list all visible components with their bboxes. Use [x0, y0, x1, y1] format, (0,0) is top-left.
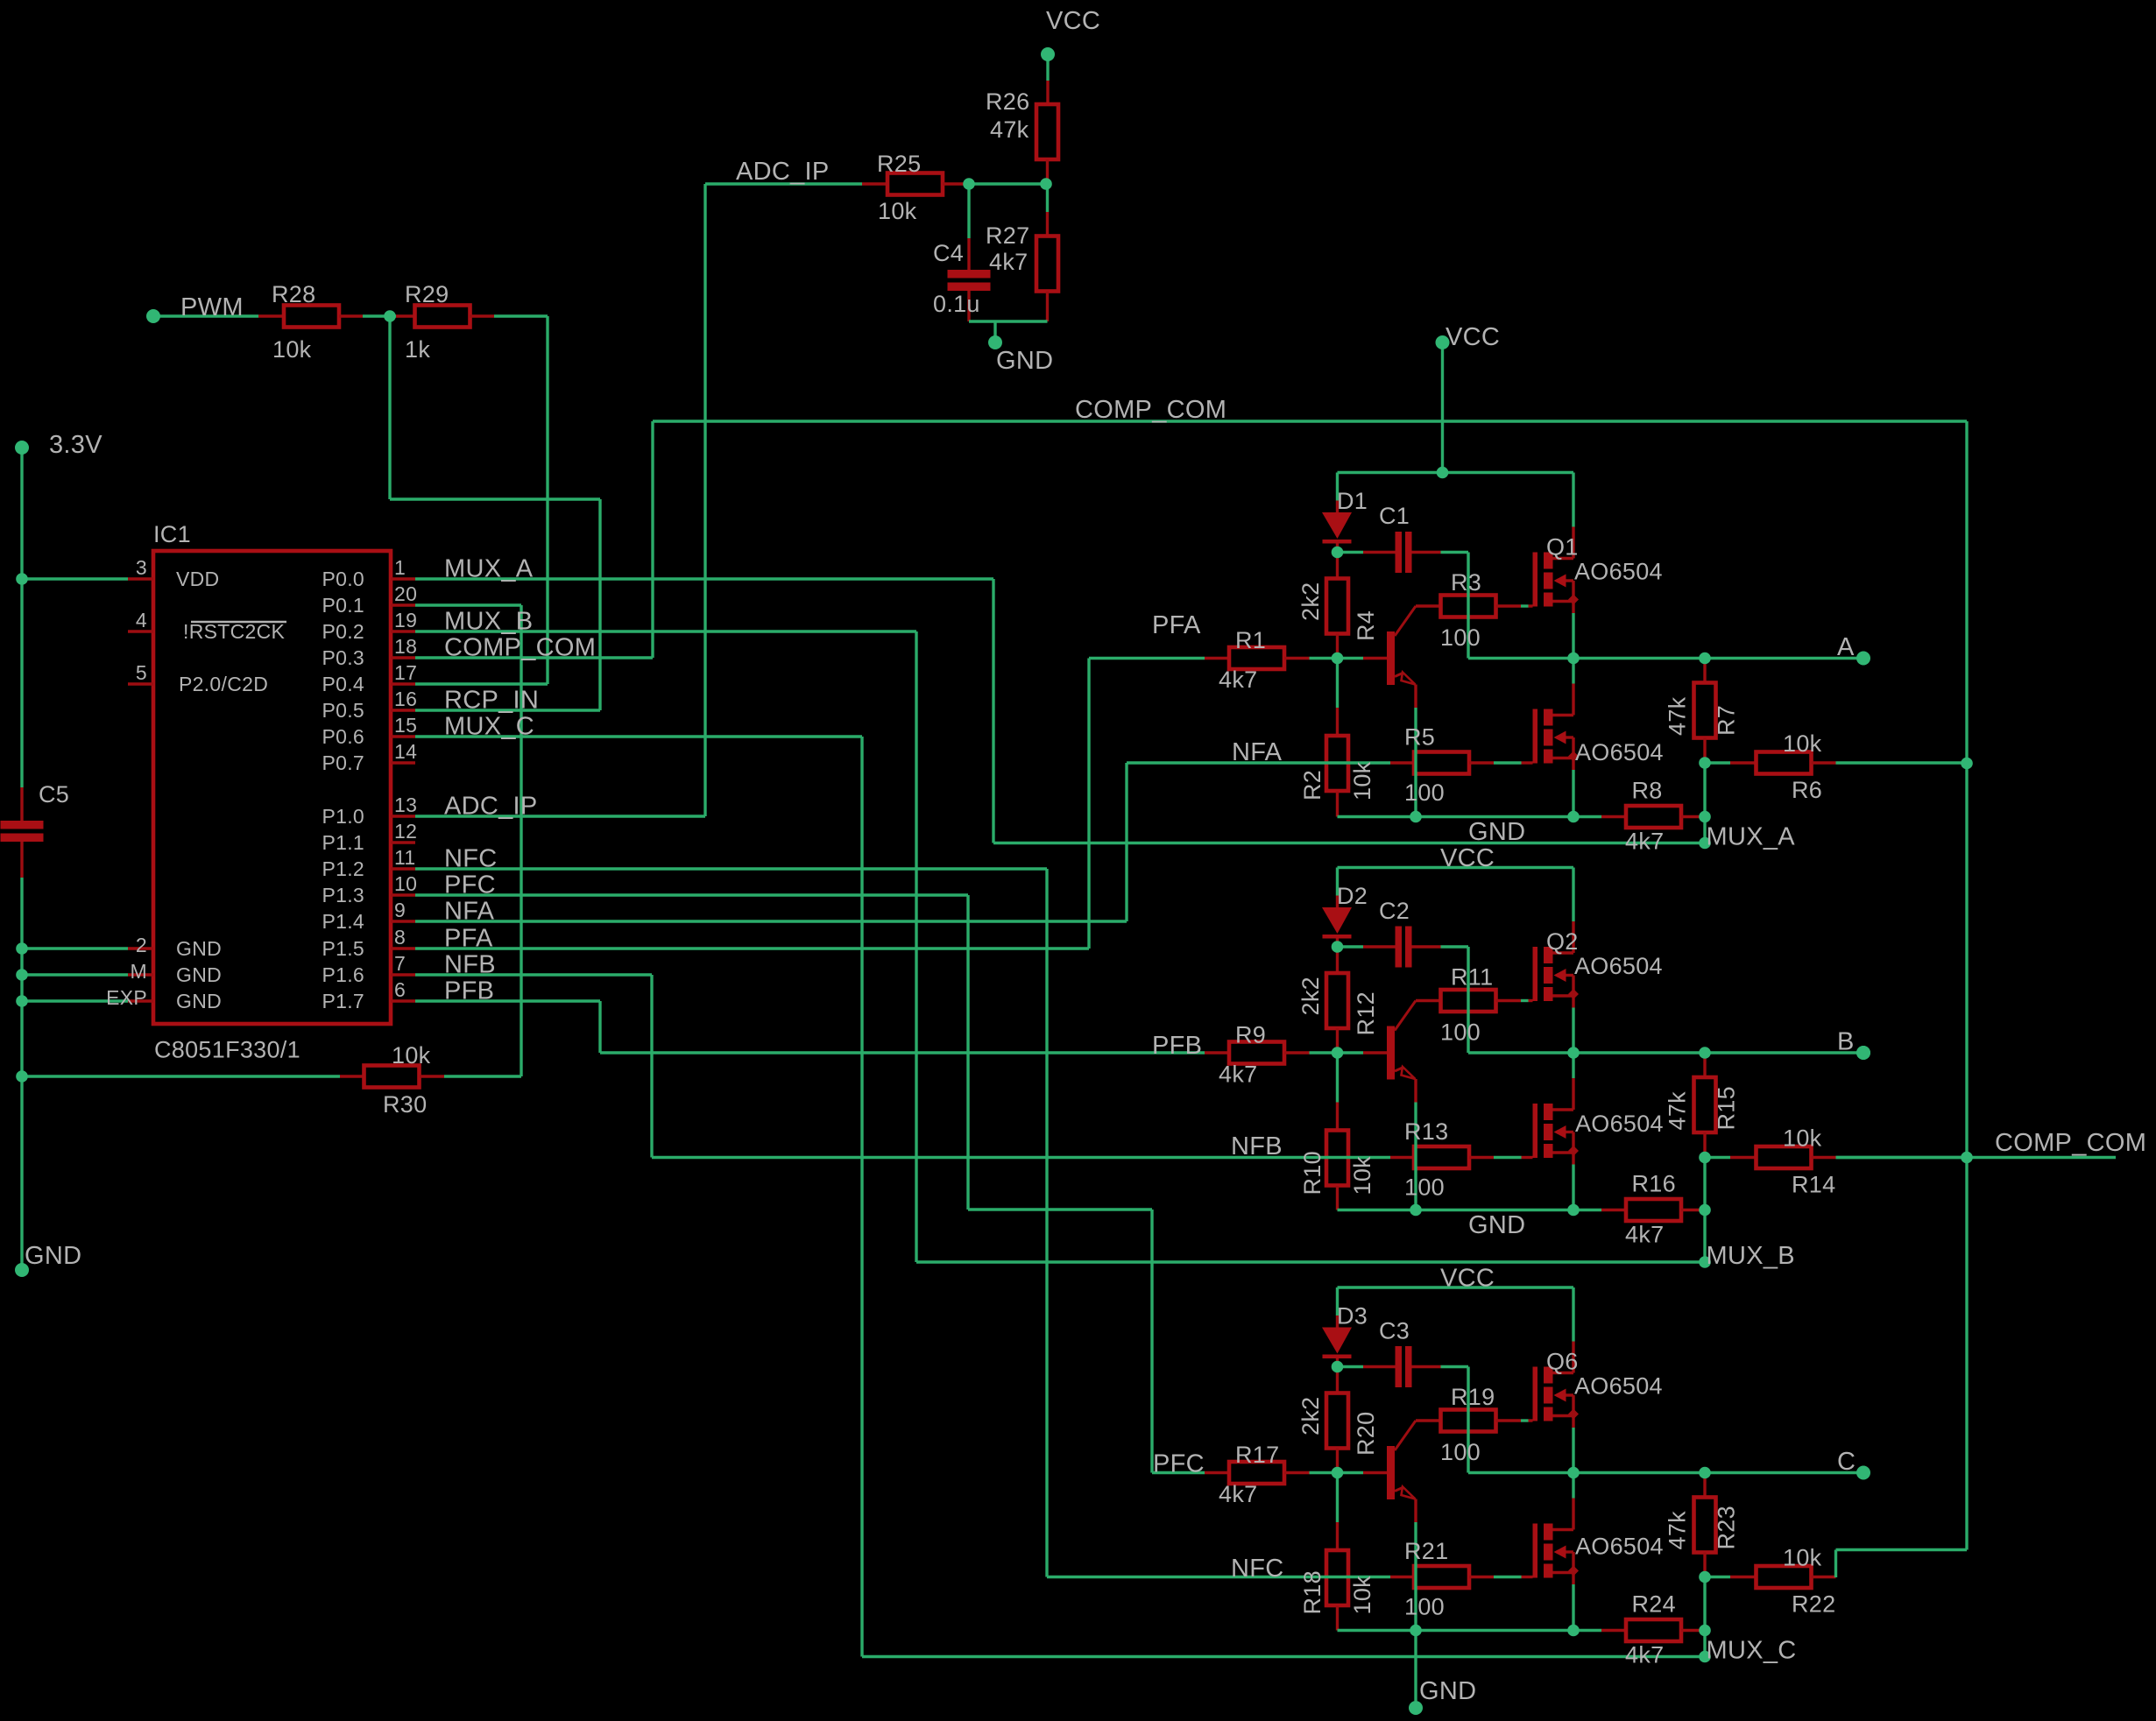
svg-text:9: 9 — [394, 899, 406, 921]
svg-text:10k: 10k — [1783, 1125, 1822, 1152]
svg-text:NFB: NFB — [444, 951, 496, 979]
svg-text:MUX_B: MUX_B — [1707, 1242, 1795, 1270]
svg-text:R12: R12 — [1353, 991, 1379, 1035]
svg-text:P0.6: P0.6 — [322, 725, 364, 748]
svg-text:PFB: PFB — [1152, 1032, 1202, 1060]
svg-text:MUX_B: MUX_B — [444, 608, 533, 636]
svg-text:PFC: PFC — [1153, 1450, 1205, 1478]
svg-text:4k7: 4k7 — [1625, 1222, 1664, 1248]
svg-text:ADC_IP: ADC_IP — [736, 158, 830, 186]
svg-text:VCC: VCC — [1046, 7, 1100, 35]
svg-text:20: 20 — [394, 582, 417, 605]
svg-text:R25: R25 — [877, 151, 921, 177]
svg-text:R26: R26 — [986, 88, 1029, 115]
svg-text:R10: R10 — [1299, 1151, 1325, 1195]
svg-text:1: 1 — [394, 556, 406, 579]
svg-text:MUX_A: MUX_A — [1707, 823, 1796, 851]
svg-text:P1.2: P1.2 — [322, 857, 364, 880]
svg-text:10k: 10k — [1349, 1576, 1375, 1615]
svg-text:AO6504: AO6504 — [1574, 1373, 1663, 1400]
svg-text:PFA: PFA — [1152, 611, 1201, 639]
svg-text:P0.7: P0.7 — [322, 751, 364, 774]
svg-text:1k: 1k — [405, 336, 430, 363]
svg-text:R30: R30 — [383, 1091, 427, 1118]
svg-text:R22: R22 — [1792, 1591, 1835, 1618]
svg-text:R11: R11 — [1451, 964, 1493, 991]
svg-text:Q1: Q1 — [1546, 534, 1579, 561]
svg-text:NFA: NFA — [1232, 738, 1283, 766]
svg-text:ADC_IP: ADC_IP — [444, 793, 538, 821]
svg-text:7: 7 — [394, 952, 406, 975]
svg-text:47k: 47k — [1665, 696, 1691, 736]
svg-text:NFC: NFC — [444, 845, 498, 873]
svg-text:0.1u: 0.1u — [933, 291, 980, 317]
svg-text:R15: R15 — [1714, 1086, 1740, 1130]
svg-text:6: 6 — [394, 978, 406, 1001]
svg-text:COMP_COM: COMP_COM — [1995, 1129, 2146, 1157]
svg-text:R5: R5 — [1404, 724, 1435, 751]
svg-text:R18: R18 — [1299, 1570, 1325, 1614]
svg-text:IC1: IC1 — [153, 521, 191, 547]
svg-text:R29: R29 — [405, 281, 449, 307]
svg-text:Q2: Q2 — [1546, 928, 1579, 955]
svg-text:C: C — [1837, 1448, 1856, 1476]
svg-text:R17: R17 — [1235, 1442, 1279, 1468]
svg-text:100: 100 — [1440, 1439, 1481, 1465]
svg-text:GND: GND — [1419, 1677, 1476, 1705]
svg-text:R23: R23 — [1714, 1506, 1740, 1549]
svg-text:R28: R28 — [272, 281, 315, 307]
svg-text:R16: R16 — [1632, 1171, 1676, 1197]
svg-text:R3: R3 — [1451, 569, 1481, 596]
svg-text:NFA: NFA — [444, 898, 495, 926]
svg-text:GND: GND — [25, 1242, 81, 1270]
svg-text:100: 100 — [1404, 1594, 1445, 1620]
svg-text:GND: GND — [176, 990, 222, 1012]
svg-text:10k: 10k — [272, 336, 312, 363]
svg-text:3.3V: 3.3V — [49, 431, 102, 459]
svg-text:R6: R6 — [1792, 777, 1822, 803]
svg-text:11: 11 — [394, 846, 415, 869]
svg-text:AO6504: AO6504 — [1574, 953, 1663, 979]
svg-text:P1.5: P1.5 — [322, 937, 364, 960]
svg-text:100: 100 — [1440, 624, 1481, 651]
svg-text:2k2: 2k2 — [1297, 1397, 1324, 1435]
svg-text:C8051F330/1: C8051F330/1 — [154, 1037, 300, 1063]
svg-text:VCC: VCC — [1440, 844, 1495, 872]
svg-text:GND: GND — [996, 347, 1053, 375]
svg-text:47k: 47k — [1665, 1091, 1691, 1131]
svg-text:COMP_COM: COMP_COM — [444, 634, 596, 662]
svg-text:P1.4: P1.4 — [322, 910, 364, 933]
svg-text:P0.5: P0.5 — [322, 699, 364, 722]
svg-text:100: 100 — [1404, 1174, 1445, 1201]
svg-text:100: 100 — [1440, 1019, 1481, 1046]
svg-text:P0.1: P0.1 — [322, 594, 364, 617]
svg-text:4k7: 4k7 — [989, 249, 1028, 275]
svg-text:D2: D2 — [1337, 883, 1368, 909]
svg-text:C5: C5 — [39, 781, 69, 808]
svg-text:47k: 47k — [990, 116, 1029, 143]
svg-text:R1: R1 — [1235, 627, 1266, 653]
svg-text:RCP_IN: RCP_IN — [444, 687, 539, 715]
svg-text:10k: 10k — [1783, 1545, 1822, 1571]
svg-text:EXP: EXP — [106, 986, 147, 1009]
svg-text:AO6504: AO6504 — [1575, 1534, 1664, 1560]
svg-text:R14: R14 — [1792, 1172, 1835, 1198]
svg-text:100: 100 — [1404, 779, 1445, 806]
svg-text:D3: D3 — [1337, 1303, 1368, 1330]
svg-text:B: B — [1837, 1028, 1855, 1056]
svg-text:R24: R24 — [1632, 1591, 1676, 1618]
svg-text:GND: GND — [176, 937, 222, 960]
svg-text:VCC: VCC — [1446, 323, 1500, 351]
svg-text:M: M — [131, 960, 147, 983]
svg-text:AO6504: AO6504 — [1574, 559, 1663, 585]
svg-text:4k7: 4k7 — [1219, 1481, 1257, 1507]
svg-text:P0.0: P0.0 — [322, 568, 364, 590]
svg-text:A: A — [1837, 633, 1855, 661]
svg-text:10k: 10k — [1349, 1156, 1375, 1196]
svg-text:P1.0: P1.0 — [322, 805, 364, 828]
svg-text:5: 5 — [136, 661, 147, 684]
svg-text:P0.2: P0.2 — [322, 620, 364, 643]
svg-text:AO6504: AO6504 — [1575, 1111, 1664, 1137]
svg-text:2k2: 2k2 — [1297, 582, 1324, 621]
svg-text:P2.0/C2D: P2.0/C2D — [179, 673, 268, 695]
svg-text:47k: 47k — [1665, 1511, 1691, 1550]
svg-text:NFB: NFB — [1231, 1132, 1283, 1160]
svg-text:D1: D1 — [1337, 488, 1368, 514]
svg-text:C3: C3 — [1379, 1318, 1410, 1344]
svg-text:P1.3: P1.3 — [322, 884, 364, 906]
svg-text:PWM: PWM — [180, 293, 244, 321]
svg-text:COMP_COM: COMP_COM — [1075, 396, 1226, 424]
svg-text:P1.7: P1.7 — [322, 990, 364, 1012]
svg-text:19: 19 — [394, 609, 417, 631]
svg-text:4k7: 4k7 — [1219, 667, 1257, 693]
svg-text:13: 13 — [394, 793, 417, 816]
svg-text:R13: R13 — [1404, 1118, 1448, 1145]
svg-text:AO6504: AO6504 — [1575, 739, 1664, 765]
svg-text:R9: R9 — [1235, 1022, 1266, 1048]
svg-text:2k2: 2k2 — [1297, 977, 1324, 1015]
svg-text:PFB: PFB — [444, 977, 494, 1005]
svg-text:PFC: PFC — [444, 871, 496, 899]
svg-text:R27: R27 — [986, 222, 1029, 249]
svg-text:P1.6: P1.6 — [322, 963, 364, 986]
svg-text:14: 14 — [394, 740, 417, 763]
svg-text:4k7: 4k7 — [1625, 829, 1664, 855]
svg-text:VDD: VDD — [176, 568, 219, 590]
svg-text:3: 3 — [136, 556, 147, 579]
svg-text:R19: R19 — [1451, 1384, 1495, 1410]
svg-text:MUX_A: MUX_A — [444, 555, 534, 583]
svg-text:C4: C4 — [933, 240, 964, 266]
svg-text:MUX_C: MUX_C — [1707, 1637, 1797, 1665]
svg-text:NFC: NFC — [1231, 1555, 1284, 1583]
svg-text:10k: 10k — [392, 1042, 431, 1069]
svg-text:16: 16 — [394, 688, 417, 710]
svg-text:2: 2 — [136, 934, 147, 956]
svg-text:R20: R20 — [1353, 1412, 1379, 1456]
svg-text:4k7: 4k7 — [1219, 1062, 1257, 1088]
svg-text:R4: R4 — [1353, 610, 1379, 641]
svg-text:GND: GND — [1468, 818, 1525, 846]
svg-text:R7: R7 — [1714, 705, 1740, 736]
svg-text:8: 8 — [394, 926, 406, 949]
svg-text:4k7: 4k7 — [1625, 1642, 1664, 1668]
svg-text:VCC: VCC — [1440, 1265, 1495, 1293]
svg-text:15: 15 — [394, 714, 417, 737]
svg-text:10k: 10k — [878, 198, 917, 224]
svg-text:C1: C1 — [1379, 503, 1410, 529]
svg-text:R21: R21 — [1404, 1538, 1448, 1564]
svg-text:10k: 10k — [1349, 761, 1375, 801]
svg-text:18: 18 — [394, 635, 417, 658]
svg-text:10: 10 — [394, 872, 417, 895]
svg-text:MUX_C: MUX_C — [444, 713, 534, 741]
svg-text:GND: GND — [176, 963, 222, 986]
svg-text:4: 4 — [136, 609, 147, 631]
svg-text:!RSTC2CK: !RSTC2CK — [183, 620, 286, 643]
svg-text:R2: R2 — [1299, 770, 1325, 801]
svg-text:P1.1: P1.1 — [322, 831, 364, 854]
svg-text:PFA: PFA — [444, 925, 493, 953]
svg-text:P0.3: P0.3 — [322, 646, 364, 669]
svg-text:GND: GND — [1468, 1211, 1525, 1239]
svg-text:P0.4: P0.4 — [322, 673, 364, 695]
svg-text:17: 17 — [394, 661, 417, 684]
svg-text:12: 12 — [394, 820, 417, 843]
svg-text:R8: R8 — [1632, 778, 1663, 804]
svg-text:10k: 10k — [1783, 730, 1822, 757]
svg-text:C2: C2 — [1379, 898, 1410, 924]
svg-text:Q6: Q6 — [1546, 1349, 1579, 1375]
